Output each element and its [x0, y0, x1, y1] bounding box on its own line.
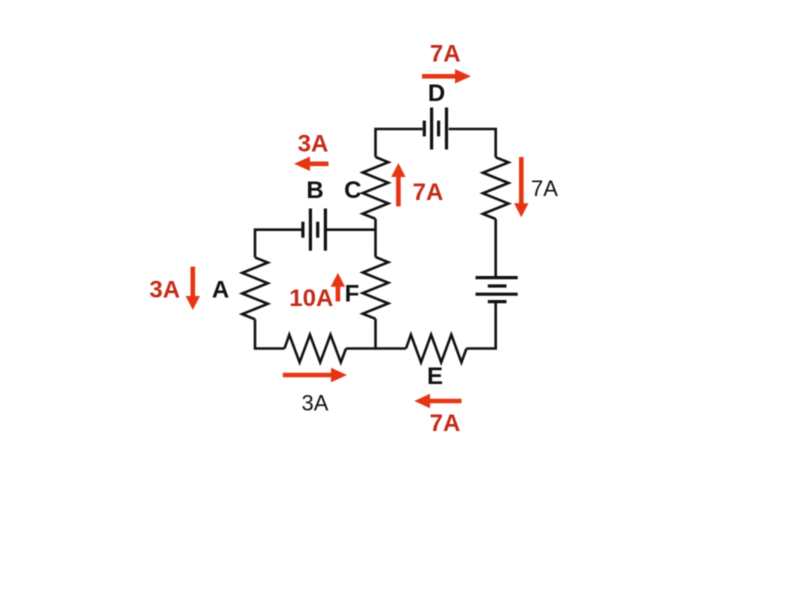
svg-text:F: F [345, 280, 360, 307]
svg-text:A: A [212, 277, 229, 304]
svg-text:C: C [344, 177, 361, 204]
svg-text:3A: 3A [302, 391, 329, 416]
svg-text:3A: 3A [298, 130, 329, 157]
svg-text:7A: 7A [430, 410, 461, 437]
svg-text:E: E [427, 363, 443, 390]
svg-text:10A: 10A [289, 285, 333, 312]
svg-text:D: D [428, 80, 445, 107]
svg-text:7A: 7A [413, 179, 444, 206]
svg-text:7A: 7A [531, 176, 558, 201]
svg-text:7A: 7A [430, 41, 461, 68]
svg-text:B: B [306, 177, 323, 204]
svg-text:3A: 3A [149, 277, 180, 304]
